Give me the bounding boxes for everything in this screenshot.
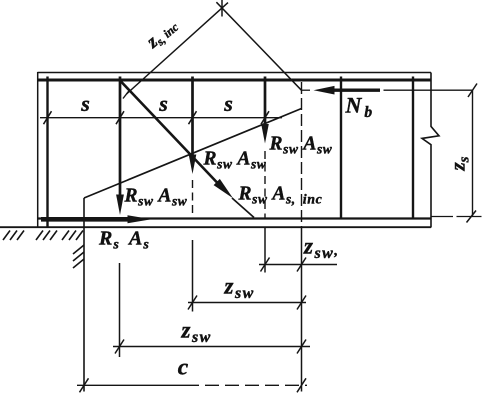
- beam bottom face / ground line: [0, 226, 431, 228]
- z_s bottom extension line: [432, 216, 454, 218]
- support face hatching: [73, 245, 84, 254]
- stirrup 1: [46, 77, 48, 227]
- inclined bent-up bar: [121, 81, 218, 183]
- stirrup force arrow head (x=265): [261, 124, 269, 144]
- z_sw 1 left tick: [261, 258, 270, 272]
- top longitudinal reinforcement: [38, 79, 432, 82]
- z_s dimension line (right): [472, 90, 474, 216]
- c right tick: [297, 378, 306, 392]
- solid extension of N_b vertical below beam: [301, 227, 303, 392]
- line from N_b point parallel to bar up to apex: [216, 2, 301, 90]
- z_s bottom tick: [467, 211, 477, 223]
- stirrup 3 dashed lower part: [192, 180, 194, 219]
- z_sw 3 right tick: [297, 340, 306, 354]
- z_sw dimension 1 line: [259, 264, 337, 266]
- c dimension line: [77, 384, 185, 386]
- tick at foot of z_s,inc on bar: [123, 90, 130, 99]
- z_sw 1 right tick: [297, 258, 306, 272]
- s dim tick at stirrup 1: [44, 111, 52, 124]
- stirrup 6: [412, 77, 414, 220]
- crack start / support edge extension line (x=84): [83, 198, 85, 392]
- stirrup 4 upper heavy part: [264, 77, 267, 128]
- z_s top tick: [468, 84, 477, 98]
- ground hatching group 2: [36, 231, 43, 241]
- stirrup force arrow head R_sw A_sw (x=120): [116, 195, 124, 216]
- svg-text:s: s: [158, 91, 168, 116]
- c left tick: [80, 378, 89, 392]
- ground hatching group 3: [62, 231, 69, 241]
- stirrup 2 (upper heavy part = force arrow shaft): [119, 77, 122, 198]
- inclined crack line: [84, 109, 302, 199]
- s dim tick at stirrup 4: [261, 111, 269, 124]
- R_s A_s arrowhead: [128, 215, 152, 223]
- svg-text:Rs As: Rs As: [98, 228, 150, 253]
- z_sw 2 right tick: [297, 296, 306, 310]
- beam left edge: [37, 72, 39, 227]
- beam top face line: [38, 72, 432, 74]
- s dim tick at stirrup 3: [189, 111, 197, 124]
- apex vertical tick: [221, 0, 223, 17]
- stirrup 3 upper heavy part: [191, 77, 194, 159]
- N_b arrowhead: [314, 86, 335, 95]
- z_s,inc perpendicular dimension line (apex to inclined bar): [127, 3, 229, 94]
- N_b heavy arrow shaft: [334, 88, 380, 91]
- dashed vertical through N_b point (x=301.5): [301, 82, 303, 227]
- svg-text:s: s: [80, 91, 90, 116]
- svg-text:s: s: [223, 91, 233, 116]
- bottom longitudinal reinforcement: [38, 217, 432, 219]
- stirrup 4 dashed lower part: [264, 151, 266, 219]
- stirrup force arrow head (x=192.5): [189, 155, 197, 175]
- z_sw dimension 2 line: [188, 302, 306, 304]
- ground hatching group 1: [3, 231, 10, 241]
- inclined bar thin continuation to bottom reinforcement: [232, 198, 254, 218]
- N_b force line (thin) from crack top to z_s dimension: [302, 89, 311, 91]
- s spacing dimension line: [40, 117, 282, 119]
- extension line below stirrup 2: [119, 263, 121, 357]
- beam right edge with break symbol: [422, 73, 439, 228]
- inclined bar force arrowhead R_sw A_s,inc: [214, 179, 233, 198]
- z_sw 3 left tick: [115, 340, 124, 354]
- stirrup 5: [340, 77, 342, 219]
- svg-text:c: c: [178, 355, 189, 381]
- R_s A_s heavy arrow shaft: [41, 217, 130, 222]
- s dim tick at stirrup 2: [116, 111, 124, 124]
- extension line below stirrup 3: [192, 240, 194, 312]
- extension line below stirrup 4: [264, 228, 266, 273]
- z_sw 2 left tick: [188, 296, 197, 310]
- z_sw dimension 3 line: [113, 346, 310, 348]
